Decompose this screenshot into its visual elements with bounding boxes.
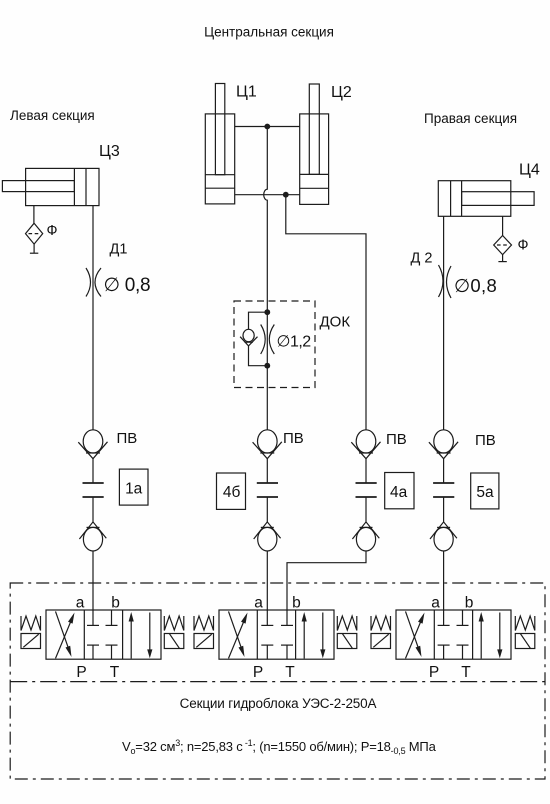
valve V2 left spring [194, 616, 214, 631]
valve V3 right solenoid [515, 634, 535, 649]
wire center vertical to ДОК [264, 127, 268, 313]
svg-text:a: a [254, 595, 263, 612]
svg-text:ПВ: ПВ [283, 430, 304, 447]
hydroblock inner separator line [10, 681, 545, 683]
wire Ц1-Ц2 upper [235, 126, 300, 128]
check valve bottom branch1 [79, 497, 106, 611]
svg-text:4б: 4б [223, 484, 241, 501]
valve V3 parallel arrows section [479, 612, 503, 659]
wire branch3 to valve2 port b [287, 551, 366, 611]
node dot ДОК bottom [264, 363, 270, 369]
wire Ц1-Ц2 lower with hop [235, 194, 300, 196]
svg-text:b: b [292, 595, 301, 612]
svg-text:Левая секция: Левая секция [10, 108, 95, 123]
svg-text:Ц2: Ц2 [331, 84, 352, 101]
svg-text:Vо=32 см3; n=25,83 с -1; (n=15: Vо=32 см3; n=25,83 с -1; (n=1550 об/мин)… [122, 738, 437, 756]
check valve bottom branch3 [352, 497, 379, 551]
svg-text:∅ 0,8: ∅ 0,8 [104, 275, 151, 296]
svg-text:Ц1: Ц1 [236, 84, 257, 101]
node dot ДОК top [264, 309, 270, 315]
svg-text:ПВ: ПВ [386, 431, 407, 448]
wire ДОК bypass [249, 312, 268, 366]
coupling branch4 [433, 483, 454, 497]
wire Ц3 to filter [33, 206, 35, 224]
svg-text:Правая секция: Правая секция [424, 111, 517, 126]
svg-text:∅1,2: ∅1,2 [277, 334, 312, 351]
junction dot lower [283, 192, 289, 198]
valve V3 closed center stubs [438, 610, 469, 659]
filter Ф right [494, 236, 512, 262]
check valve bottom branch4 [430, 497, 457, 611]
throttle in ДОК (arcs) [261, 325, 275, 355]
valve V1 port labels [76, 595, 120, 682]
svg-text:Д1: Д1 [110, 242, 128, 258]
svg-text:1а: 1а [125, 481, 143, 498]
coupling branch3 [356, 483, 377, 497]
valve V3 left solenoid [371, 634, 391, 649]
valve V2 right spring [337, 616, 357, 631]
check valve in ДОК [240, 329, 257, 346]
check valve ПВ branch2 [253, 430, 282, 483]
cylinder Ц2 [300, 84, 329, 204]
valve V1 closed center stubs [87, 610, 118, 659]
svg-text:∅0,8: ∅0,8 [454, 275, 497, 296]
svg-text:P: P [429, 664, 439, 681]
svg-text:5а: 5а [476, 484, 494, 501]
box 5а [471, 473, 499, 509]
filter Ф left [26, 223, 43, 253]
valve V1 body [46, 610, 161, 659]
svg-text:Ф: Ф [47, 223, 58, 239]
svg-text:ПВ: ПВ [117, 430, 138, 447]
svg-text:Ц3: Ц3 [99, 143, 120, 160]
valve V3 body [396, 610, 511, 659]
check valve ПВ branch1 [78, 430, 107, 483]
check valve ПВ branch4 [429, 430, 458, 483]
valve V1 left spring [21, 616, 41, 631]
valve V2 left solenoid [194, 634, 214, 649]
wire ДОК to ПВ center [266, 366, 268, 430]
valve V2 right solenoid [337, 634, 357, 649]
wire center through ДОК [266, 312, 268, 366]
throttle Д1 (arcs) [86, 268, 101, 297]
valve V2 port labels [253, 595, 301, 682]
cylinder Ц4 [438, 181, 534, 217]
wire from lower junction to right branch [286, 195, 366, 430]
coupling branch2 [257, 483, 278, 497]
svg-text:Ц4: Ц4 [519, 162, 540, 179]
svg-text:T: T [285, 664, 295, 681]
svg-text:ПВ: ПВ [475, 432, 496, 449]
wire Ц3 to branch1 [92, 206, 94, 430]
wire Ц4 to branch4 [443, 216, 445, 430]
valve V1 parallel arrows section [129, 612, 153, 659]
box 4а [385, 473, 414, 509]
valve V3 left spring [371, 616, 391, 631]
svg-text:Секции гидроблока УЭС-2-250А: Секции гидроблока УЭС-2-250А [180, 696, 377, 711]
svg-text:ДОК: ДОК [320, 314, 351, 331]
svg-text:P: P [253, 664, 263, 681]
box 1а [119, 469, 148, 505]
box 4б [217, 473, 246, 509]
hydroblock dashed enclosure [10, 583, 545, 779]
svg-text:a: a [431, 595, 440, 612]
valve V1 left solenoid [21, 634, 41, 649]
valve V2 body [219, 610, 334, 659]
junction dot upper [264, 124, 270, 130]
svg-text:b: b [465, 595, 474, 612]
svg-text:Д 2: Д 2 [411, 251, 433, 267]
valve V2 crossed arrows section [229, 611, 248, 658]
svg-text:P: P [76, 664, 86, 681]
check valve bottom branch2 [254, 497, 281, 611]
valve V2 parallel arrows section [302, 612, 326, 659]
svg-text:Ф: Ф [518, 238, 529, 254]
valve V3 crossed arrows section [406, 611, 425, 658]
throttle ДОК block dashed box [234, 301, 315, 388]
wire Ц4 to filter [502, 216, 504, 235]
valve V3 right spring [515, 616, 535, 631]
svg-text:Центральная секция: Центральная секция [204, 25, 334, 40]
svg-text:4а: 4а [390, 484, 408, 501]
valve V3 port labels [429, 595, 473, 682]
svg-text:b: b [111, 595, 120, 612]
coupling branch1 [83, 483, 104, 497]
svg-text:T: T [461, 664, 471, 681]
valve V2 closed center stubs [261, 610, 293, 659]
svg-text:a: a [76, 595, 85, 612]
cylinder Ц1 [205, 84, 234, 204]
valve V1 right solenoid [164, 634, 184, 649]
throttle Д2 (arcs) [439, 265, 452, 298]
check valve ПВ branch3 [351, 430, 380, 483]
svg-text:T: T [110, 664, 120, 681]
valve V1 right spring [164, 616, 184, 631]
cylinder Ц3 [2, 168, 99, 205]
valve V1 crossed arrows section [56, 611, 75, 658]
